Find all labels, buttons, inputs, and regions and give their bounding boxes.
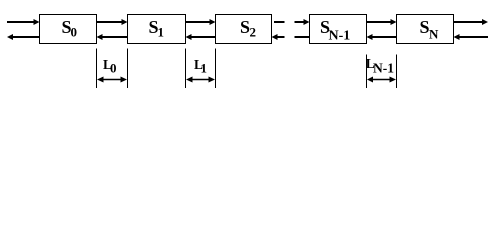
svg-text:N-1: N-1 (329, 29, 351, 44)
svg-text:1: 1 (201, 61, 208, 76)
svg-text:0: 0 (110, 61, 117, 76)
svg-text:S: S (240, 17, 250, 37)
svg-text:2: 2 (250, 25, 257, 40)
svg-text:N-1: N-1 (373, 61, 394, 76)
svg-text:S: S (420, 17, 430, 37)
svg-text:N: N (429, 27, 439, 42)
svg-text:1: 1 (158, 25, 165, 40)
svg-text:0: 0 (71, 25, 78, 40)
